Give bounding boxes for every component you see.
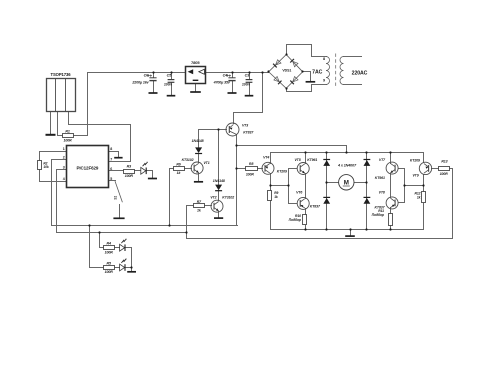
wire trunk to VT5 base [289,169,297,186]
svg-text:7: 7 [110,158,112,162]
wire R2 bottom to PIC pin4 [40,170,67,182]
IR receiver TSOP1736 [47,79,76,112]
svg-text:VT6: VT6 [296,191,302,195]
ground H-bridge bottom rail [345,235,355,237]
node motor terminal junctions [325,181,327,183]
wire TSOP gnd leg [50,112,52,134]
wire VT8 base to trunk [399,202,405,204]
wire bridge AC bottom to transformer pin9 [287,85,327,92]
wire motor left [327,182,339,184]
svg-text:7805: 7805 [191,60,200,65]
ground C4 [228,92,237,94]
ground C5 [167,95,176,97]
svg-text:R4: R4 [106,242,110,246]
wire H-bridge bottom rail [271,229,424,231]
LED2 at R4 [120,239,127,251]
svg-text:VDS1: VDS1 [282,69,291,73]
transistor VT8 KT837 [386,197,398,209]
LED3 at R5 [120,259,127,271]
svg-text:M: M [344,179,349,186]
wire R4 to LED2 [115,247,120,249]
capacitor C5 [168,80,175,83]
svg-text:3: 3 [63,166,65,170]
svg-text:8: 8 [323,57,325,61]
svg-text:R8: R8 [249,162,253,166]
wire TSOP middle leg to R1 [58,112,63,136]
ground TSOP [46,134,56,136]
svg-text:R3: R3 [127,164,131,168]
capacitor C4 [226,74,235,80]
node driver trunk junctions [269,184,271,186]
svg-text:VT4: VT4 [263,156,269,160]
svg-text:100R: 100R [63,138,72,142]
ground LED1 [148,178,157,180]
wire +5V top rail [88,73,269,136]
wire VT4 emitter to rail [270,153,272,164]
bridge diode bottom-left [274,77,282,85]
node bridge corner junctions [267,70,269,72]
LED1 at PIC pin6 [141,162,148,174]
transistor VT1 KT3102 [191,162,203,174]
resistor R2 [38,161,42,170]
node LED cathode junction [130,266,132,268]
svg-text:5: 5 [110,177,112,181]
svg-text:KT3102: KT3102 [182,158,194,162]
wire motor supply line [237,146,347,153]
svg-text:PIC12F629: PIC12F629 [76,166,98,171]
wire R6 left to bus A [170,169,174,226]
wire D1 cathode to VT1 collector [198,154,200,163]
wire trunk to VT6 base [289,186,297,204]
wire R5 drop from bus A [90,226,104,268]
wire R5 to LED3 [115,267,120,269]
node H-bridge top rail junctions [345,151,347,153]
svg-text:Подбор: Подбор [289,218,301,222]
resistor R9 [268,191,272,201]
svg-text:KT837: KT837 [310,205,321,209]
switch S1 blade [115,181,122,202]
wire PIC pin2 to bus A [52,160,238,226]
resistor R4 [104,246,115,250]
wire R12 top [423,186,425,192]
bridge diode top-left [273,60,281,68]
svg-text:S1: S1 [113,196,117,200]
svg-text:100R: 100R [246,172,255,176]
svg-text:R6: R6 [176,162,180,166]
transistor VT6 KT837 [297,197,309,209]
svg-text:4: 4 [63,177,65,181]
wire VT9 collector down [423,175,425,186]
wire 7805 ground stem [195,84,197,92]
wire R10 bottom [305,226,307,230]
wire C5 stem [171,73,173,95]
wire R11 bottom [390,226,392,230]
svg-text:10k: 10k [43,165,48,169]
wire LED1 cathode to ground [147,171,153,178]
node bottom rail junctions [304,228,306,230]
svg-text:KT961: KT961 [307,158,317,162]
capacitor C3 [246,80,253,83]
transistor VT5 KT961 [297,163,309,175]
wire bridge minus to ground [303,72,311,82]
wire R8 right to VT4 base [258,168,263,170]
svg-text:4700µ 35v: 4700µ 35v [213,81,231,85]
resistor R7 [194,204,205,208]
svg-text:VT5: VT5 [294,158,300,162]
node +5V rail junctions [152,71,154,73]
ground VT2 emitter [214,217,223,219]
wire VT4 collector node [270,174,272,191]
svg-text:VT1: VT1 [203,161,209,165]
wire R7 left to bus C [187,206,194,239]
svg-text:KT209: KT209 [277,170,287,174]
wire D2 cathode to VT2 collector [218,191,220,201]
wire switch bottom to ground [119,205,121,218]
svg-text:KT837: KT837 [243,130,254,134]
svg-text:100R: 100R [440,172,449,176]
wire VT3 collector vertical [236,136,238,226]
svg-text:1k: 1k [274,195,278,199]
wire right diode leg [366,153,368,230]
svg-text:2: 2 [63,156,65,160]
svg-text:7AC: 7AC [312,70,322,76]
wire H-bridge top rail [271,152,424,154]
svg-text:VT3: VT3 [242,123,248,127]
svg-text:100R: 100R [105,250,114,254]
wire VT6 emitter to R10 [305,209,307,215]
wire R9 bottom to bottom rail [270,201,272,230]
resistor R3 [124,170,135,174]
diode lower-right 1N4007 [364,197,371,203]
motor M [339,175,354,190]
wire PIC pin3 to bus B [57,170,187,233]
wire R3 to LED1 [135,170,141,172]
wire VT3 base corner down to D1 [198,130,200,148]
wire C6 stem [153,73,155,93]
ground C3 [245,95,254,97]
wire VT8 emitter to R11 [390,208,392,214]
svg-text:220AC: 220AC [352,71,368,77]
ground LED3 R5 [127,271,136,273]
svg-text:9: 9 [323,79,325,83]
resistor R11 [389,214,393,226]
transistor VT7 KT961 [386,162,398,174]
svg-text:6: 6 [110,167,112,171]
wire C4 stem [232,73,234,93]
diode lower-left 1N4007 [323,197,330,203]
wire VT2 emitter to ground [218,212,220,218]
svg-text:100R: 100R [125,174,134,178]
wire bridge plus to VT3 emitter [234,73,263,124]
svg-text:100n: 100n [164,82,173,86]
resistor R13 [439,167,450,171]
wire bridge AC top to transformer pin8 [287,45,327,57]
wire VT7 base to trunk [399,168,405,170]
wire PIC pin6 to R3 [109,170,124,172]
wire bus C to R13 loop [187,169,453,239]
wire D2 branch from VT3 base down [218,130,220,185]
svg-text:1: 1 [63,147,65,151]
wire 220AC bottom stub [344,84,362,86]
svg-text:Подбор: Подбор [372,213,384,217]
wire VT4 collector to bases trunk [271,185,289,187]
svg-text:KT3102: KT3102 [222,196,234,200]
svg-text:VT9: VT9 [412,174,418,178]
capacitor C6 [147,74,156,80]
svg-text:VT2: VT2 [210,195,216,199]
svg-text:1N4148: 1N4148 [213,179,225,183]
wire PIC pin8 to ground [109,152,119,157]
wire motor right [355,182,367,184]
wire right bases trunk [404,169,406,203]
transistor VT3 KT837 [226,123,239,136]
ground PIC pin8 [114,157,122,159]
diode D1 1N4148 [195,147,202,153]
ground bridge minus [306,81,316,83]
wire TSOP out to PIC pin7 [69,112,131,162]
resistor R8 [246,167,258,171]
resistor R5 [104,266,115,270]
bridge diode bottom-right [290,77,298,85]
svg-text:R13: R13 [441,160,447,164]
ground C6 [149,92,158,94]
transformer primary winding 7AC [326,57,330,85]
transformer secondary winding 220AC [340,57,344,85]
diode upper-left 1N4007 [323,160,330,166]
wire VT5 emitter to VT6 collector [305,174,307,199]
node VT3 base to D2 junction [217,128,219,130]
svg-text:2200µ 16v: 2200µ 16v [131,81,149,85]
wire trunk to VT9 collector [405,185,424,187]
svg-text:1N4148: 1N4148 [192,139,204,143]
ground 7805 [190,91,201,93]
wire VT3 base [199,129,227,131]
ground VT1 emitter [194,181,203,183]
svg-text:4 x 1N4007: 4 x 1N4007 [337,163,357,167]
diode D2 1N4148 [215,185,222,191]
wire R1 right to rail [74,135,88,137]
wire VT7 collector to rail [390,153,392,164]
svg-text:8: 8 [110,147,112,151]
wire LED3 cathode to ground [126,268,132,272]
transistor VT4 KT209 [262,162,274,174]
transistor VT9 KT209 [419,162,431,174]
svg-text:100R: 100R [105,270,114,274]
bridge rectifier VDS1 [269,55,303,89]
resistor R12 [422,192,426,203]
resistor R6 [174,167,185,171]
wire 220AC top stub [344,56,362,58]
diode upper-right 1N4007 [364,160,371,166]
wire bottom rail ground stem [350,230,352,236]
wire left diode leg [326,153,328,230]
bridge diode top-right [290,59,298,67]
wire rail to VT9 emitter [423,153,425,163]
wire VT7 emitter to VT8 collector [390,174,392,198]
wire R12 bottom to rail corner [423,204,425,230]
wire R8 left [237,168,246,170]
wire LED2 cathode down [126,248,132,268]
wire R6 right to VT1 base [185,168,192,170]
resistor R1 [63,134,74,138]
node bus B junctions [98,231,100,233]
svg-text:KT209: KT209 [410,159,420,163]
resistor R10 [303,215,307,225]
node bus A junctions [88,224,90,226]
svg-text:R1: R1 [65,129,69,133]
wire VT9 base to R13 [432,168,439,170]
svg-text:VT8: VT8 [379,191,385,195]
ground switch S1 [113,217,124,219]
svg-text:KT961: KT961 [375,176,385,180]
svg-text:TSOP1736: TSOP1736 [51,72,72,77]
regulator 7805 [186,67,206,84]
wire VT1 emitter to ground [198,174,200,182]
wire PIC pin5 to switch [109,180,116,182]
svg-text:100n: 100n [242,82,251,86]
IC chip PIC12F629 [67,146,109,188]
transistor VT2 KT3102 [211,200,223,212]
transformer core [335,54,337,88]
node VT3 collector junctions [235,144,237,146]
wire C3 stem [249,73,251,95]
wire R4 drop from bus B [100,233,104,248]
wire PIC pin1 to R2 top [40,152,67,161]
wire R7 right to VT2 base [205,205,212,207]
wire VT5 collector to rail [305,153,307,164]
